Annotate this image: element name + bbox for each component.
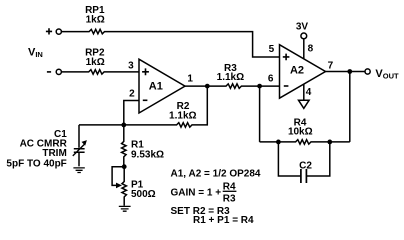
svg-text:A2: A2 [290,64,304,76]
svg-text:1kΩ: 1kΩ [86,15,105,26]
svg-text:10kΩ: 10kΩ [288,126,313,137]
svg-text:2: 2 [129,88,135,99]
svg-text:500Ω: 500Ω [131,189,156,200]
svg-text:7: 7 [328,61,334,72]
svg-text:1: 1 [187,74,193,85]
svg-text:GAIN = 1 +: GAIN = 1 + [171,187,222,198]
svg-text:R1 + P1 = R4: R1 + P1 = R4 [193,215,254,226]
svg-text:1.1kΩ: 1.1kΩ [169,110,196,121]
svg-text:4: 4 [306,87,312,98]
svg-text:6: 6 [268,73,274,84]
svg-text:5pF TO 40pF: 5pF TO 40pF [6,158,66,169]
svg-text:C2: C2 [299,160,312,171]
svg-text:3: 3 [128,61,134,72]
svg-text:TRIM: TRIM [42,148,66,159]
svg-text:A1: A1 [149,80,163,92]
svg-text:3V: 3V [296,22,309,33]
svg-text:R3: R3 [223,194,236,205]
svg-text:1kΩ: 1kΩ [86,57,105,68]
svg-text:9.53kΩ: 9.53kΩ [131,149,164,160]
svg-text:5: 5 [269,44,275,55]
svg-text:1.1kΩ: 1.1kΩ [217,72,244,83]
svg-text:8: 8 [308,44,314,55]
svg-text:A1, A2 = 1/2 OP284: A1, A2 = 1/2 OP284 [171,168,261,179]
